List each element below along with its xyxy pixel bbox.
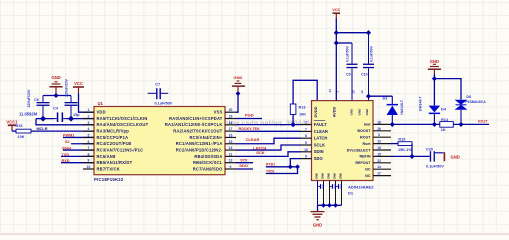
pin stub SCLK	[301, 144, 312, 146]
capacitor C6	[42, 96, 44, 103]
svg-text:SCK: SCK	[256, 150, 265, 155]
svg-text:18: 18	[229, 121, 233, 125]
wire branch1	[336, 32, 368, 34]
junction D6/IOUT	[458, 122, 463, 127]
svg-text:PWM1: PWM1	[63, 134, 74, 138]
pin stub SDIN	[301, 151, 312, 153]
wire PWM1 to pin5	[63, 136, 94, 138]
svg-text:C20: C20	[426, 148, 433, 152]
svg-text:P4SMA16CA: P4SMA16CA	[465, 100, 486, 104]
junction VSS gnd	[236, 91, 241, 96]
junction AVDD column	[366, 94, 371, 99]
junction D4/IOUT	[432, 122, 437, 127]
pin stub 14	[373, 168, 391, 170]
svg-text:GND: GND	[358, 108, 362, 116]
svg-text:D1: D1	[348, 191, 354, 196]
svg-text:3: 3	[88, 121, 90, 125]
wire R19 to C20 net	[411, 144, 413, 157]
ground symbol (earth)	[311, 211, 325, 213]
pin 13 stub	[225, 155, 236, 157]
svg-text:RC5/CCP1/P1A: RC5/CCP1/P1A	[97, 135, 129, 140]
svg-text:14: 14	[377, 165, 381, 169]
junction TXD1	[295, 164, 300, 169]
svg-text:17: 17	[229, 127, 233, 131]
svg-text:10K: 10K	[299, 113, 306, 117]
svg-text:AVDD: AVDD	[332, 106, 337, 117]
grid lines	[0, 0, 1, 235]
svg-text:3: 3	[378, 133, 380, 137]
svg-text:DVDD: DVDD	[313, 106, 318, 117]
pin stub LATCH	[301, 137, 312, 139]
pin stub 15	[373, 155, 391, 157]
svg-text:GND: GND	[313, 223, 322, 228]
junction D3/IOUT	[390, 122, 395, 127]
svg-text:REFIN: REFIN	[359, 155, 370, 159]
pin 8 stub	[83, 155, 94, 157]
svg-text:19: 19	[229, 115, 233, 119]
svg-text:RA0/AN0/C1IN+/ICSPDAT: RA0/AN0/C1IN+/ICSPDAT	[169, 116, 223, 121]
pin 1 stub	[83, 111, 94, 113]
svg-text:15: 15	[377, 152, 381, 156]
op IC U1 PIC18F15K22 body	[94, 107, 225, 175]
pin stub SDO	[301, 158, 312, 160]
wire VCC to VDD pin1	[79, 93, 95, 112]
pin stub CLEAR	[301, 130, 312, 132]
svg-text:R14: R14	[441, 118, 449, 122]
wire pin17 to CLEAR	[236, 130, 301, 132]
wire RXD to pin9	[61, 162, 94, 164]
svg-text:BOOST: BOOST	[357, 129, 371, 133]
wire OSC1 right segment to pin2	[67, 118, 95, 120]
pin 14 stub	[225, 149, 236, 151]
pin 4 stub	[83, 130, 94, 132]
svg-text:RC4/C2OUT/P1B: RC4/C2OUT/P1B	[97, 141, 132, 146]
svg-text:5: 5	[88, 133, 90, 137]
pin 3 stub	[83, 124, 94, 126]
svg-text:13: 13	[377, 140, 381, 144]
pin stub 16	[373, 130, 391, 132]
svg-text:15p: 15p	[73, 113, 80, 117]
junction C6/OSC	[40, 116, 46, 122]
svg-text:R19: R19	[398, 137, 405, 141]
pin stub 3	[373, 136, 391, 138]
wire S064 to pin7	[63, 149, 94, 151]
svg-text:24: 24	[328, 89, 332, 93]
svg-text:7: 7	[305, 127, 307, 131]
junction gnd rail	[321, 203, 326, 208]
svg-text:220uF/10V: 220uF/10V	[65, 79, 69, 97]
svg-text:GND: GND	[350, 108, 354, 116]
svg-text:C10: C10	[361, 73, 368, 77]
svg-text:17: 17	[377, 172, 381, 176]
wire OSC1 left segment	[36, 118, 54, 120]
svg-text:TXD: TXD	[62, 153, 70, 157]
svg-text:RC7/AN9/SDO: RC7/AN9/SDO	[193, 166, 223, 171]
wire pin12 stub	[236, 162, 253, 164]
wire R13 bottom	[292, 115, 294, 125]
resistor R13	[290, 104, 296, 115]
svg-text:2: 2	[88, 115, 90, 119]
svg-text:1: 1	[88, 108, 90, 112]
wire TXD to pin8	[61, 155, 94, 157]
pin stub FAULT	[301, 124, 312, 126]
crystal X1	[57, 112, 59, 122]
svg-text:Iout: Iout	[364, 123, 372, 127]
bottom pin wire	[329, 181, 331, 206]
svg-text:0.1uF/50V: 0.1uF/50V	[155, 101, 173, 105]
wire branch2	[336, 42, 352, 44]
wire REFIN to C20	[391, 155, 430, 157]
wire VSS to GND	[236, 94, 238, 113]
svg-text:13: 13	[229, 159, 233, 163]
wire pin11 stub	[236, 168, 253, 170]
pin 10 stub	[83, 168, 94, 170]
svg-text:GND: GND	[321, 173, 325, 179]
svg-text:ROUT: ROUT	[360, 136, 371, 140]
wire PGD stub	[236, 118, 262, 120]
svg-text:9: 9	[230, 165, 232, 169]
svg-text:0.1uF/50V: 0.1uF/50V	[370, 45, 374, 62]
capacitor marks between bottom pins	[320, 184, 321, 189]
svg-text:RC6/AN8: RC6/AN8	[97, 154, 116, 159]
junction gnd rail	[333, 203, 338, 208]
pin stub 19	[373, 149, 391, 151]
svg-text:S2: S2	[65, 140, 70, 144]
svg-text:10: 10	[304, 148, 308, 152]
bottom pin wire	[335, 181, 337, 206]
svg-text:2: 2	[305, 121, 307, 125]
svg-text:RA5/T1CKI/OSC1/CLKIN: RA5/T1CKI/OSC1/CLKIN	[97, 116, 148, 121]
junction branch1 corner	[366, 30, 371, 35]
svg-text:14: 14	[229, 146, 233, 150]
svg-text:11.0592M: 11.0592M	[19, 111, 38, 116]
svg-text:FAULT: FAULT	[314, 122, 327, 127]
svg-text:0.1uF/50V: 0.1uF/50V	[426, 164, 444, 168]
svg-text:4: 4	[88, 127, 90, 131]
svg-text:9: 9	[305, 155, 307, 159]
svg-text:SCLK: SCLK	[314, 142, 325, 147]
pin 11 stub	[225, 168, 236, 170]
svg-text:GND: GND	[451, 155, 460, 160]
svg-text:PIC18F15K22: PIC18F15K22	[94, 177, 124, 182]
svg-text:RB7/TX/CK: RB7/TX/CK	[97, 166, 120, 171]
svg-text:U1: U1	[98, 101, 104, 106]
svg-text:16: 16	[377, 127, 381, 131]
pin 12 stub	[225, 162, 236, 164]
svg-text:REFOUT: REFOUT	[355, 161, 371, 165]
pin 17 stub	[225, 130, 236, 132]
svg-text:RA1/AN1/C12IN0-/ICSPCLK: RA1/AN1/C12IN0-/ICSPCLK	[165, 122, 223, 127]
svg-text:RB4/SDI/SDA: RB4/SDI/SDA	[194, 154, 222, 159]
capacitor C20	[430, 151, 431, 161]
svg-text:VSS: VSS	[214, 110, 223, 115]
svg-text:20: 20	[229, 108, 233, 112]
svg-text:15K-1%: 15K-1%	[398, 148, 412, 152]
svg-text:RXD1: RXD1	[266, 163, 275, 167]
svg-text:RC0/AN4/C2IN+: RC0/AN4/C2IN+	[190, 135, 223, 140]
svg-text:LATCH: LATCH	[314, 136, 328, 141]
power GND sideways	[444, 152, 446, 161]
svg-text:D3: D3	[383, 97, 388, 101]
wire MCLR to pin4	[31, 130, 94, 132]
wire gnd tie rail	[318, 204, 342, 206]
wire GND to D6	[434, 79, 461, 100]
svg-text:GND: GND	[333, 173, 337, 179]
svg-text:GND: GND	[315, 173, 319, 179]
junction R13/FAULT	[290, 122, 295, 127]
svg-text:RA2/AN2/T0CKI/C1OUT: RA2/AN2/T0CKI/C1OUT	[173, 129, 223, 134]
wire pin13 to SDIN	[236, 152, 301, 157]
svg-text:0.1uF/50V: 0.1uF/50V	[345, 45, 349, 62]
junction RXD1	[288, 164, 293, 169]
svg-text:8: 8	[88, 152, 90, 156]
wire cap top rail	[43, 95, 71, 97]
svg-text:1N4148-T: 1N4148-T	[400, 99, 404, 115]
svg-text:1K: 1K	[441, 128, 446, 132]
wire to GND symbol	[317, 205, 319, 211]
capacitor C9	[351, 43, 353, 64]
wire OSC2 to pin3	[36, 119, 94, 125]
svg-text:VDD: VDD	[97, 110, 106, 115]
diode D4 1N4148	[429, 106, 440, 113]
svg-text:RB5/AN11/RX/DT: RB5/AN11/RX/DT	[97, 160, 133, 165]
svg-text:7: 7	[88, 146, 90, 150]
svg-text:PGD: PGD	[245, 113, 254, 118]
svg-text:IOUT: IOUT	[478, 119, 488, 124]
pin 7 stub	[83, 149, 94, 151]
wire D3 cathode to AVDD column	[369, 95, 393, 97]
svg-text:D6: D6	[466, 95, 471, 99]
svg-text:C6: C6	[34, 98, 39, 102]
pin 2 stub	[83, 118, 94, 120]
svg-text:NC: NC	[365, 168, 371, 172]
junction R19/C20	[409, 154, 414, 159]
junction gnd rail	[53, 93, 58, 98]
svg-text:CLEAR: CLEAR	[246, 137, 260, 142]
wire Rset to R19	[391, 143, 398, 145]
wire IOUT segment 2	[454, 123, 490, 125]
pin 9 stub	[83, 162, 94, 164]
svg-text:RB6/SCK/SCL: RB6/SCK/SCL	[193, 160, 223, 165]
pin stub 13	[373, 143, 391, 145]
svg-text:RC2/AN6/P1D/C12IN2-: RC2/AN6/P1D/C12IN2-	[176, 147, 223, 152]
svg-text:10: 10	[87, 165, 91, 169]
svg-text:220uF/10V: 220uF/10V	[27, 89, 31, 107]
svg-text:9: 9	[88, 159, 90, 163]
wire pin15 to LATCH	[236, 138, 301, 144]
svg-text:RC1/AN5/C12IN1-/P1A: RC1/AN5/C12IN1-/P1A	[176, 141, 223, 146]
svg-text:GND: GND	[339, 173, 343, 179]
svg-text:GND: GND	[430, 59, 439, 64]
wire GND to D4	[433, 74, 435, 106]
svg-text:RA3/MCLR/Vpp: RA3/MCLR/Vpp	[97, 129, 130, 134]
pin 18 stub	[225, 124, 236, 126]
pin 19 stub	[225, 118, 236, 120]
capacitor C7	[148, 92, 156, 94]
svg-text:C9: C9	[346, 73, 351, 77]
junction VCC/branch2	[334, 40, 339, 45]
pin 5 stub	[83, 136, 94, 138]
svg-text:CLEAR: CLEAR	[314, 129, 328, 134]
TVS diode D6 P4SMA16CA	[455, 100, 468, 105]
svg-text:C7: C7	[155, 82, 160, 86]
svg-text:RA4/AN4/OSC2/CLKOUT: RA4/AN4/OSC2/CLKOUT	[97, 122, 149, 127]
resistor R15	[16, 129, 31, 133]
svg-text:GND: GND	[51, 75, 60, 80]
wire S2 to pin6	[71, 143, 94, 145]
svg-text:S064: S064	[62, 146, 72, 150]
pin 20 stub	[225, 111, 236, 113]
svg-text:MCLR: MCLR	[37, 127, 48, 131]
bottom pin wire	[317, 181, 319, 206]
diode D3 1N4148	[391, 115, 393, 124]
op IC D1 AD5410AREZ body	[312, 101, 374, 181]
pin stub 12	[373, 162, 391, 164]
wire RXD1	[266, 166, 298, 168]
svg-text:VCC: VCC	[74, 81, 83, 86]
wire pin14 to SCLK	[236, 145, 301, 150]
pin 15 stub	[225, 143, 236, 145]
svg-text:RXD: RXD	[62, 159, 70, 163]
svg-text:NC: NC	[365, 174, 371, 178]
svg-text:SDO: SDO	[314, 156, 324, 161]
wire R13 to top pin	[293, 80, 317, 104]
svg-text:5: 5	[305, 141, 307, 145]
svg-text:GND: GND	[365, 108, 369, 116]
capacitor C5	[70, 96, 72, 103]
svg-text:18: 18	[377, 120, 381, 124]
svg-text:AD5410AREZ: AD5410AREZ	[348, 185, 374, 190]
svg-text:15: 15	[229, 140, 233, 144]
bottom pin wire	[323, 181, 325, 206]
svg-text:R13: R13	[299, 106, 306, 110]
wire VCC main column	[335, 19, 337, 101]
svg-text:VCC: VCC	[332, 8, 340, 12]
svg-text:SDO: SDO	[239, 163, 248, 168]
wire IOUT segment 1	[391, 123, 440, 125]
svg-text:19: 19	[377, 146, 381, 150]
overline on FAULT	[314, 119, 326, 121]
pin 16 stub	[225, 136, 236, 138]
svg-text:8: 8	[305, 134, 307, 138]
pin stub 18	[373, 123, 391, 125]
junction VCC/branch1	[334, 30, 339, 35]
capacitor C10	[368, 33, 370, 64]
pin stub 17	[373, 175, 391, 177]
svg-text:16: 16	[229, 133, 233, 137]
svg-text:6: 6	[88, 140, 90, 144]
svg-text:RC3/AN7/C12IN3-/P1C: RC3/AN7/C12IN3-/P1C	[97, 147, 144, 152]
svg-text:GND: GND	[234, 75, 243, 80]
wire VCC1 to R15	[12, 130, 16, 132]
wire TXD1	[266, 167, 298, 174]
junction GND branch	[432, 76, 437, 81]
svg-text:DVccSELECT: DVccSELECT	[347, 148, 372, 152]
svg-text:12: 12	[377, 159, 381, 163]
svg-text:10K: 10K	[18, 135, 25, 139]
resistor R14	[440, 122, 454, 128]
pin 6 stub	[83, 143, 94, 145]
svg-text:R15: R15	[16, 124, 23, 128]
svg-text:11: 11	[229, 152, 233, 156]
svg-text:ROCKY-TEK: ROCKY-TEK	[239, 127, 261, 131]
svg-text:SDIN: SDIN	[314, 149, 324, 154]
svg-text:12: 12	[360, 90, 364, 94]
wire FAULT net	[236, 124, 301, 126]
bottom pin wire	[341, 181, 343, 206]
svg-text:1N4148-T: 1N4148-T	[419, 96, 423, 112]
wire to SDO pin	[290, 159, 300, 167]
svg-text:Rset: Rset	[363, 142, 372, 146]
junction C5/OSC	[68, 116, 74, 122]
junction gnd rail	[327, 203, 332, 208]
svg-text:TXD1: TXD1	[266, 169, 275, 173]
svg-text:GND: GND	[327, 173, 331, 179]
